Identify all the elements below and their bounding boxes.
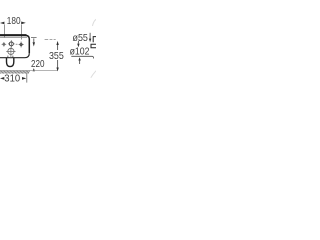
ø55 arrow right (down) [89, 33, 91, 39]
section profile lower bracket [91, 44, 96, 48]
svg-text:220: 220 [31, 59, 45, 70]
dim 180 left arrow [0, 22, 4, 25]
floor line [0, 70, 58, 72]
dim 180 extension line left [4, 25, 6, 38]
svg-text:ø55: ø55 [73, 33, 89, 44]
dim 180 right arrow [21, 22, 26, 25]
front view rim inner line [0, 37, 27, 39]
ø102 arrow (up) [78, 57, 80, 60]
ø55 arrow left (down) [77, 41, 79, 44]
floor hatching [0, 70, 30, 73]
left fixing hole cross [2, 42, 7, 47]
dim 220 top tick [31, 37, 37, 39]
svg-text:310: 310 [4, 73, 20, 84]
side view faint rim curve top right [93, 19, 97, 26]
tap hole centerlines [8, 40, 18, 47]
front view top edge (wall line) [0, 34, 27, 36]
trap inlet ticks [8, 56, 13, 58]
dim 220 upper arrow (down) [33, 38, 35, 42]
section profile upper bracket [93, 37, 96, 43]
dim 180 extension line right [20, 25, 22, 40]
siphon U-trap [7, 58, 14, 67]
ø102 reference line [71, 56, 93, 58]
dim 310 right arrow [22, 77, 26, 80]
dim 220 lower arrow (up) [33, 68, 35, 71]
front view right and bottom outline [26, 35, 30, 53]
drain circle [8, 48, 14, 54]
tap hole circle [9, 42, 13, 46]
dim 310 left arrow [0, 77, 4, 80]
dim 310 right extension line [26, 73, 28, 83]
svg-text:180: 180 [7, 16, 21, 27]
drain centerlines [6, 47, 15, 58]
right fixing hole cross [19, 42, 24, 48]
dim 355 dashed reference line [45, 39, 56, 41]
side view faint base curve bottom right [91, 71, 96, 78]
dim 355 upper arrow (up) [56, 41, 58, 45]
dim 355 lower arrow (down) [57, 60, 59, 68]
svg-text:355: 355 [49, 51, 64, 62]
